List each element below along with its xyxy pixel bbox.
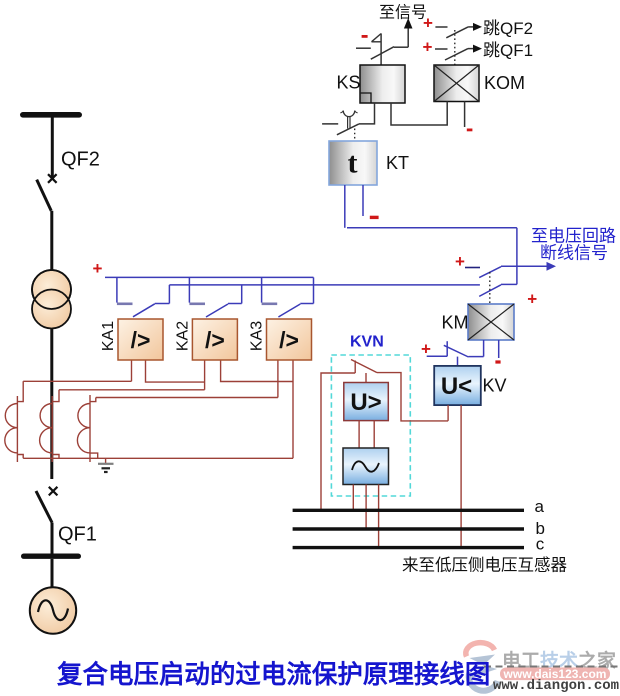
ground xyxy=(98,458,114,472)
node + KM signal contact xyxy=(455,252,465,271)
wire KA3 right pin to CT return xyxy=(292,360,294,458)
contact KA1 xyxy=(117,277,169,316)
svg-text:+: + xyxy=(423,37,433,56)
contact KA2 xyxy=(189,277,241,317)
wire KV right pin to bus c xyxy=(460,405,462,547)
label KT xyxy=(386,153,409,173)
label 来至低压侧电压互感器 xyxy=(402,556,568,575)
wire CT3 to KA3 xyxy=(96,397,278,399)
node + of DC bus xyxy=(93,259,103,278)
node + trip QF1 xyxy=(423,37,433,56)
wire filter pin to bus c xyxy=(378,485,380,548)
relay KS xyxy=(360,65,405,103)
wire CT return xyxy=(23,457,293,459)
svg-text:+: + xyxy=(527,289,537,308)
wire QF2 to transformer xyxy=(50,211,53,272)
label KOM xyxy=(484,73,525,93)
wire CT1 to KA1 xyxy=(23,380,131,382)
node - below KT xyxy=(370,216,379,219)
generator G xyxy=(30,587,76,633)
svg-text:KV: KV xyxy=(483,376,507,396)
watermark dais123 band xyxy=(500,667,610,681)
watermark dashed rule xyxy=(484,666,619,668)
contact KOM to QF1 xyxy=(435,45,482,60)
contact KA3 xyxy=(262,277,314,317)
wire contact output rail xyxy=(169,284,480,286)
watermark 电工技术之家 xyxy=(502,649,617,672)
svg-text:t: t xyxy=(348,147,358,180)
linkage KT dotted xyxy=(354,129,356,142)
wire KA1 right pin to KA2 left xyxy=(146,360,205,382)
svg-text:来至低压侧电压互感器: 来至低压侧电压互感器 xyxy=(402,556,568,575)
generator terminal bar xyxy=(21,554,81,559)
svg-text:跳QF2: 跳QF2 xyxy=(483,19,533,38)
svg-text:U>: U> xyxy=(350,389,381,416)
wire U> to filter pins xyxy=(359,421,374,448)
svg-text:www.diangon.com: www.diangon.com xyxy=(493,678,619,694)
wire KM right pin xyxy=(498,340,500,358)
label QF2 xyxy=(61,149,100,171)
node + near KM xyxy=(527,289,537,308)
wire KOM right pin xyxy=(464,102,466,128)
relay KA2 xyxy=(192,319,237,360)
breaker QF2 blade xyxy=(37,180,52,211)
node - below KM xyxy=(495,360,500,363)
contact KS with flag xyxy=(356,33,394,65)
current transformer CT1 xyxy=(5,381,23,462)
node + trip QF2 xyxy=(423,13,433,32)
wire transformer to QF1 xyxy=(50,328,53,479)
svg-text:+: + xyxy=(455,252,465,271)
node - below KOM xyxy=(467,129,473,132)
relay KT xyxy=(329,141,377,185)
wire KS left pin to KT contact xyxy=(359,103,375,124)
wire KV contact left leg to bus a xyxy=(321,373,355,510)
svg-text:+: + xyxy=(423,13,433,32)
label KM xyxy=(442,313,469,333)
bus b xyxy=(293,527,524,530)
contact KM lower xyxy=(479,284,517,296)
svg-text:KA2: KA2 xyxy=(174,321,191,351)
node + KV contact xyxy=(421,340,431,359)
KVN dashed enclosure xyxy=(331,355,410,496)
svg-text:KA3: KA3 xyxy=(249,321,266,351)
label QF1 xyxy=(58,524,97,546)
breaker QF1 cross xyxy=(49,487,58,496)
svg-text:KT: KT xyxy=(386,153,409,173)
label KA2 xyxy=(174,321,191,351)
label KVN xyxy=(350,334,384,351)
contact KT time-delay xyxy=(322,111,359,135)
svg-text:跳QF1: 跳QF1 xyxy=(483,41,533,60)
relay KA3 xyxy=(267,319,312,360)
svg-text:KM: KM xyxy=(442,313,469,333)
watermark logo xyxy=(466,643,498,691)
wire U> top pin xyxy=(365,373,367,383)
breaker QF2 cross xyxy=(48,174,57,183)
svg-text:/>: /> xyxy=(131,327,151,353)
relay KV xyxy=(434,366,481,405)
wire bar to generator xyxy=(51,559,54,588)
contact KOM to QF2 xyxy=(435,23,482,38)
svg-text:/>: /> xyxy=(205,327,225,353)
wire KA3 left pin xyxy=(277,360,279,398)
contact KV (U<) xyxy=(427,341,484,357)
wire filter pin to bus b xyxy=(365,485,367,530)
label 跳QF1 xyxy=(483,41,533,60)
svg-text:KOM: KOM xyxy=(484,73,525,93)
transformer T1 xyxy=(32,270,71,329)
svg-text:复合电压启动的过电流保护原理接线图: 复合电压启动的过电流保护原理接线图 xyxy=(56,660,490,689)
svg-text:QF2: QF2 xyxy=(61,149,100,171)
wire KT left pin to KM contact loop xyxy=(344,185,346,228)
svg-text:U<: U< xyxy=(441,373,472,400)
wire KA1 left pin xyxy=(131,360,133,381)
svg-text:a: a xyxy=(535,497,545,516)
wire CT2 to KA2 xyxy=(59,389,205,391)
node - KS contact xyxy=(362,35,368,38)
relay U> xyxy=(344,383,389,421)
watermark www.diangon.com xyxy=(493,678,619,694)
current transformer CT2 xyxy=(40,390,59,462)
arrow to signal xyxy=(394,18,413,47)
wire contact to KV coil loop xyxy=(377,373,448,421)
linkage KM dotted xyxy=(489,272,491,303)
svg-text:+: + xyxy=(93,259,103,278)
svg-text:KS: KS xyxy=(337,73,361,93)
busbar xyxy=(20,112,82,118)
wire QF1 to terminal bar xyxy=(51,523,54,555)
wire KM left pin xyxy=(483,340,485,357)
svg-text:KA1: KA1 xyxy=(100,321,117,351)
contact KM upper (signal) xyxy=(465,267,501,278)
svg-text:c: c xyxy=(536,535,545,554)
caption 复合电压启动的过电流保护原理接线图 xyxy=(56,660,490,689)
svg-text:QF1: QF1 xyxy=(58,524,97,546)
wire filter pin to bus a xyxy=(352,485,354,511)
label 至信号 xyxy=(379,4,427,22)
relay KOM xyxy=(434,65,479,102)
label KV xyxy=(483,376,507,396)
label KA3 xyxy=(249,321,266,351)
label b xyxy=(536,519,545,538)
svg-text:至信号: 至信号 xyxy=(379,4,427,22)
wire KM contact to KT loop xyxy=(347,228,517,285)
svg-text:断线信号: 断线信号 xyxy=(540,244,608,263)
relay KM xyxy=(468,304,514,340)
wire KA2 right pin to KA3 right xyxy=(221,360,293,382)
breaker QF1 blade xyxy=(36,491,52,523)
wire KV top pin xyxy=(457,357,459,366)
linkage KOM dotted xyxy=(454,30,456,65)
wire KA2 left pin xyxy=(204,360,206,390)
label 至电压回路断线信号 xyxy=(531,227,616,263)
bus c xyxy=(293,546,524,549)
label KA1 xyxy=(100,321,117,351)
wire KS right pin to KOM left pin xyxy=(391,102,447,126)
label a xyxy=(535,497,545,516)
wire KT right pin xyxy=(362,185,364,216)
contact KV output (above U>) xyxy=(351,360,377,374)
wire DC plus bus xyxy=(105,276,314,278)
label c xyxy=(536,535,545,554)
wire to voltage-loop signal arrow xyxy=(501,262,556,271)
label KS xyxy=(337,73,361,93)
current transformer CT3 xyxy=(77,395,97,462)
label 跳QF2 xyxy=(483,19,533,38)
svg-text:KVN: KVN xyxy=(350,334,384,351)
svg-text:/>: /> xyxy=(279,327,299,353)
wire busbar to QF2 xyxy=(51,117,54,177)
wire KV left pin to loop xyxy=(447,405,449,421)
bus a xyxy=(293,509,524,512)
filter box (negative sequence) xyxy=(343,448,389,485)
relay KA1 xyxy=(118,319,163,360)
